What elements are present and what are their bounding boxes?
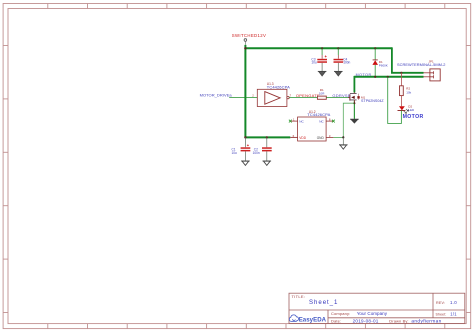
resistor R2 (400, 73, 412, 106)
ic U1.2 TC4426 power pins (289, 110, 343, 141)
svg-text:10u: 10u (232, 151, 238, 155)
wire source down (353, 100, 355, 119)
capacitor C4 (334, 48, 351, 71)
node junction U1.2 GND (342, 136, 344, 138)
pin 8 NC (326, 120, 333, 122)
node junction D1 bottom (374, 76, 376, 78)
wire to JP1 pin1 (392, 47, 424, 72)
ground (C1) (241, 161, 250, 165)
wire VDD rail (245, 136, 290, 138)
node junction C3 (321, 47, 323, 49)
pin 6 VDD (290, 136, 297, 138)
EasyEDA logo (289, 315, 326, 324)
svg-text:Company:: Company: (331, 311, 350, 316)
capacitor C2 (253, 137, 272, 161)
op-amp U1.3 (TC4426 driver gate) (252, 82, 291, 107)
svg-text:TC4426CPA: TC4426CPA (307, 112, 330, 117)
svg-text:Drawn By:: Drawn By: (389, 319, 408, 324)
connector JP1 (397, 59, 446, 81)
node junction source (353, 102, 355, 104)
svg-text:GDRVSE: GDRVSE (332, 93, 350, 98)
svg-text:MOTOR: MOTOR (356, 73, 372, 77)
svg-text:1.0: 1.0 (450, 300, 457, 305)
capacitor C1 (232, 137, 251, 161)
ground (C2) (263, 161, 272, 165)
svg-text:andyfierman: andyfierman (411, 318, 441, 324)
title block (289, 293, 465, 323)
svg-text:100n: 100n (343, 61, 350, 65)
node junction LED return (387, 76, 389, 78)
wire gate output (289, 97, 317, 99)
pin 1 NC (290, 120, 297, 122)
svg-text:1/1: 1/1 (450, 311, 457, 316)
svg-text:P600K: P600K (379, 63, 388, 67)
terminal circle (244, 39, 247, 42)
node junction D1 top (374, 47, 376, 49)
svg-text:Sheet_1: Sheet_1 (309, 299, 338, 306)
svg-text:Sheet:: Sheet: (436, 312, 447, 316)
LED D2 (398, 104, 415, 113)
svg-text:EasyEDA: EasyEDA (299, 317, 327, 324)
node junction VDD corner (244, 136, 246, 138)
svg-text:NC: NC (299, 120, 304, 124)
wire +12V top rail (245, 47, 392, 49)
svg-text:10R: 10R (319, 92, 325, 96)
node junction C2 (266, 136, 268, 138)
svg-text:10u: 10u (311, 61, 317, 65)
svg-text:GND: GND (317, 136, 325, 140)
wire LED return loop (388, 77, 402, 124)
svg-text:100n: 100n (253, 151, 260, 155)
svg-text:TITLE:: TITLE: (292, 294, 306, 299)
node junction R2 top (400, 72, 402, 74)
node junction on rail at x=245.4 (244, 47, 246, 49)
svg-text:10k: 10k (406, 90, 411, 94)
capacitor C3 (311, 48, 327, 71)
transistor M1 STP62NS04Z (348, 93, 384, 104)
pin 3 GND (326, 136, 333, 138)
wire gate input (229, 97, 257, 99)
node junction C4 (337, 47, 339, 49)
wire drain drop (353, 76, 355, 93)
svg-text:VDD: VDD (299, 136, 306, 140)
svg-text:SWITCHED12V: SWITCHED12V (232, 33, 266, 38)
svg-text:OPENGATE: OPENGATE (296, 93, 320, 98)
ground (C4) (334, 71, 343, 76)
wire R1 to gate (326, 97, 349, 99)
svg-text:Your Company: Your Company (357, 311, 388, 316)
svg-text:2019-08-01: 2019-08-01 (353, 319, 379, 324)
svg-text:NC: NC (319, 120, 324, 124)
ground (M1 source) (350, 119, 359, 123)
svg-text:SCREWTERMINAL-5MM-2: SCREWTERMINAL-5MM-2 (397, 62, 446, 67)
svg-text:LED: LED (408, 108, 415, 112)
svg-text:TC4426CPA: TC4426CPA (267, 84, 290, 89)
svg-text:REV:: REV: (436, 301, 445, 305)
resistor R1 (317, 88, 326, 99)
wire +12V vertical (244, 45, 246, 137)
ground (C3) (318, 71, 327, 76)
svg-text:Date:: Date: (331, 319, 341, 324)
svg-text:MOTOR: MOTOR (403, 114, 424, 120)
svg-text:MOTOR_DRIVEa: MOTOR_DRIVEa (200, 93, 233, 98)
ground (U1.2) (339, 137, 348, 149)
wire source to U1.2 GND (343, 103, 354, 137)
wire MOTOR rail (354, 76, 423, 78)
svg-text:STP62NS04Z: STP62NS04Z (361, 99, 384, 103)
diode D1 (372, 48, 387, 77)
